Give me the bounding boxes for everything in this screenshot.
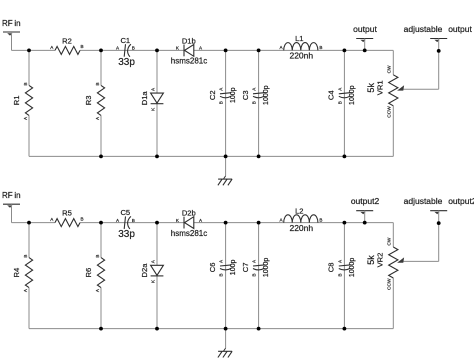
svg-text:1000p: 1000p [263,85,270,105]
svg-text:R2: R2 [62,37,72,46]
svg-text:CW: CW [386,237,392,245]
svg-text:220nh: 220nh [289,223,313,233]
svg-text:B: B [23,82,28,85]
svg-text:100p: 100p [230,87,237,103]
svg-text:5k: 5k [366,255,376,265]
svg-text:D2b: D2b [182,209,196,218]
svg-text:C6: C6 [208,263,217,273]
svg-text:B: B [80,216,83,221]
svg-text:C5: C5 [120,208,130,217]
svg-text:D2a: D2a [140,263,149,278]
svg-text:in: in [14,191,20,200]
svg-text:output2: output2 [448,196,474,206]
svg-text:R3: R3 [84,96,93,106]
svg-text:output2: output2 [351,196,380,206]
svg-text:hsms281c: hsms281c [171,229,207,238]
svg-text:L2: L2 [295,206,303,215]
svg-text:1000p: 1000p [349,258,356,278]
svg-text:output: output [448,24,472,34]
svg-text:C8: C8 [327,263,336,273]
svg-text:R6: R6 [84,268,93,278]
svg-text:RF: RF [2,19,13,28]
svg-text:C4: C4 [327,90,336,100]
svg-text:B: B [252,273,257,276]
svg-text:CW: CW [386,65,392,73]
svg-text:B: B [319,45,322,50]
svg-text:hsms281c: hsms281c [171,57,207,66]
svg-text:C2: C2 [208,90,217,100]
svg-text:B: B [95,82,100,85]
svg-text:D1b: D1b [182,37,196,46]
svg-text:33p: 33p [118,229,135,240]
svg-text:B: B [132,46,135,51]
svg-text:B: B [319,217,322,222]
svg-text:B: B [337,273,342,276]
svg-text:1000p: 1000p [263,258,270,278]
svg-text:in: in [14,19,20,28]
svg-text:R1: R1 [12,96,21,106]
svg-text:RF: RF [2,191,13,200]
svg-text:C3: C3 [241,90,250,100]
svg-text:B: B [23,255,28,258]
svg-text:L1: L1 [295,34,303,43]
svg-text:B: B [219,273,224,276]
svg-text:VR2: VR2 [376,253,385,268]
svg-text:1000p: 1000p [349,85,356,105]
svg-text:R5: R5 [62,209,72,218]
svg-text:B: B [219,101,224,104]
svg-text:adjustable: adjustable [404,196,443,206]
svg-text:220nh: 220nh [289,51,313,61]
svg-text:D1a: D1a [140,91,149,106]
svg-text:VR1: VR1 [376,80,385,95]
svg-text:R4: R4 [12,268,21,278]
svg-text:C1: C1 [120,36,130,45]
svg-text:adjustable: adjustable [404,24,443,34]
svg-text:B: B [252,101,257,104]
svg-text:B: B [337,101,342,104]
svg-text:CCW: CCW [386,106,392,118]
svg-text:B: B [95,255,100,258]
svg-text:100p: 100p [230,260,237,276]
svg-text:B: B [80,44,83,49]
svg-text:33p: 33p [118,57,135,68]
svg-text:output: output [353,24,377,34]
svg-text:B: B [132,218,135,223]
svg-text:CCW: CCW [386,278,392,290]
svg-text:C7: C7 [241,263,250,273]
svg-text:5k: 5k [366,83,376,93]
